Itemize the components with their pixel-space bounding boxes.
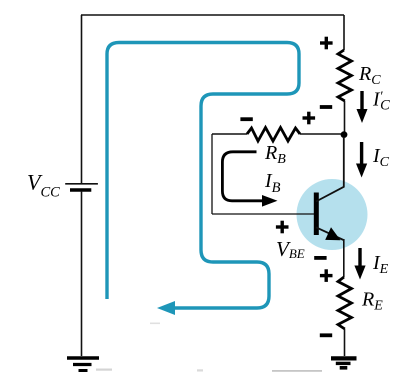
svg-text:RE: RE: [361, 289, 383, 314]
resistor RB: [247, 128, 300, 142]
base bar: [314, 193, 319, 236]
wire: base horizontal: [212, 213, 314, 215]
battery VCC: [65, 184, 98, 190]
minus (RC bottom): [320, 105, 332, 109]
current arrow I'C: [357, 91, 368, 123]
plus (VBE): [276, 221, 289, 234]
feedback loop (cyan): [107, 43, 299, 309]
wire: right vertical to RC: [343, 15, 345, 50]
svg-text:IC: IC: [372, 145, 390, 170]
wire: top horizontal: [81, 14, 344, 16]
wire: RB to left: [212, 133, 247, 135]
emitter arrowhead: [325, 227, 340, 240]
resistor RC: [338, 50, 352, 101]
svg-text:VBE: VBE: [276, 237, 305, 261]
plus (RC top): [320, 37, 333, 50]
faint artifacts: [96, 323, 322, 372]
current arrow IE: [354, 248, 365, 280]
minus (VBE): [314, 256, 326, 260]
ground (left): [67, 358, 99, 371]
plus (RB right): [303, 112, 316, 125]
minus (RE bottom): [320, 333, 332, 337]
svg-text:IE: IE: [372, 252, 389, 277]
collector lead: [316, 137, 344, 202]
wire: left vertical below battery: [81, 191, 83, 356]
svg-text:RB: RB: [264, 142, 286, 167]
emitter lead: [316, 227, 344, 240]
wire: node to RB: [300, 133, 341, 135]
plus (RE top): [320, 269, 333, 282]
svg-text:RC: RC: [358, 63, 381, 88]
node (collector junction): [341, 131, 348, 138]
svg-text:IB: IB: [264, 170, 281, 196]
loop arrowhead: [157, 301, 175, 315]
minus (RB left): [240, 117, 252, 121]
wire: left vertical above battery: [81, 15, 83, 183]
resistor RE: [338, 277, 352, 329]
current arrow IC: [356, 142, 367, 178]
wire: RE to ground: [344, 329, 346, 356]
svg-text:VCC: VCC: [27, 170, 60, 201]
svg-text:I′C: I′C: [372, 90, 390, 114]
wire: RC bottom to node: [344, 101, 346, 133]
wire: base loop left vertical: [211, 134, 213, 214]
wire: emitter down to RE: [343, 239, 345, 277]
current arrow IB: [222, 152, 277, 207]
transistor highlight circle: [297, 179, 368, 250]
transistor Q1: [314, 137, 344, 240]
ground (right): [331, 358, 357, 367]
